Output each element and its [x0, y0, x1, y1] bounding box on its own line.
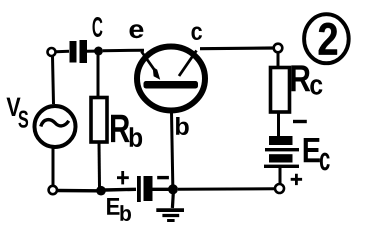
node top-right — [274, 44, 283, 53]
wire Eb to base junction — [153, 188, 170, 191]
label C — [93, 17, 103, 37]
label Rc — [291, 65, 310, 91]
base wire — [172, 112, 173, 185]
wire Vs bottom to node — [52, 148, 55, 185]
minus sign (Ec) — [293, 120, 307, 123]
wire node down to Rc — [277, 53, 280, 68]
junction at capacitor output — [94, 47, 103, 56]
transistor Q1 — [137, 47, 205, 111]
digit 2 — [319, 23, 337, 55]
plus sign (Ec) — [291, 174, 302, 185]
label Rb — [111, 115, 130, 142]
minus sign (Eb) — [157, 176, 169, 179]
resistor Rb — [91, 98, 107, 143]
collector lead — [179, 51, 197, 77]
wire bottom rail right — [178, 187, 275, 191]
node bottom-left — [49, 186, 57, 194]
wire Rc to Ec — [277, 112, 280, 136]
wire junction to transistor emitter lead — [103, 49, 144, 53]
wire node to capacitor — [56, 50, 69, 54]
label VS — [7, 98, 21, 116]
wire capacitor to junction — [86, 50, 95, 53]
label c (collector) — [191, 27, 201, 40]
capacitor C — [70, 41, 77, 63]
wire rail to battery Eb — [105, 188, 136, 192]
collector wire to right node — [200, 46, 274, 50]
plus sign (Eb) — [117, 171, 129, 184]
source VS — [35, 106, 76, 147]
battery Ec — [269, 136, 293, 145]
battery Eb — [137, 176, 141, 202]
label e — [130, 24, 144, 38]
label b (base) — [176, 117, 189, 135]
wire Ec bottom to node — [279, 168, 282, 183]
node input top-left — [48, 48, 56, 56]
resistor Rc — [271, 68, 290, 113]
node bottom-right — [275, 184, 284, 193]
emitter lead with arrow — [142, 52, 155, 71]
wire bottom rail left — [58, 189, 98, 193]
wire junction down to Rb — [97, 55, 100, 97]
badge circle 2 — [304, 14, 349, 63]
label Eb — [107, 198, 119, 215]
junction base/ground — [168, 184, 178, 194]
wire top node down to Vs — [53, 57, 54, 105]
junction Rb bottom — [96, 186, 106, 196]
label Ec — [304, 138, 320, 162]
base bar — [144, 81, 199, 89]
ground — [171, 193, 175, 208]
wire Rb bottom to rail — [98, 142, 102, 187]
